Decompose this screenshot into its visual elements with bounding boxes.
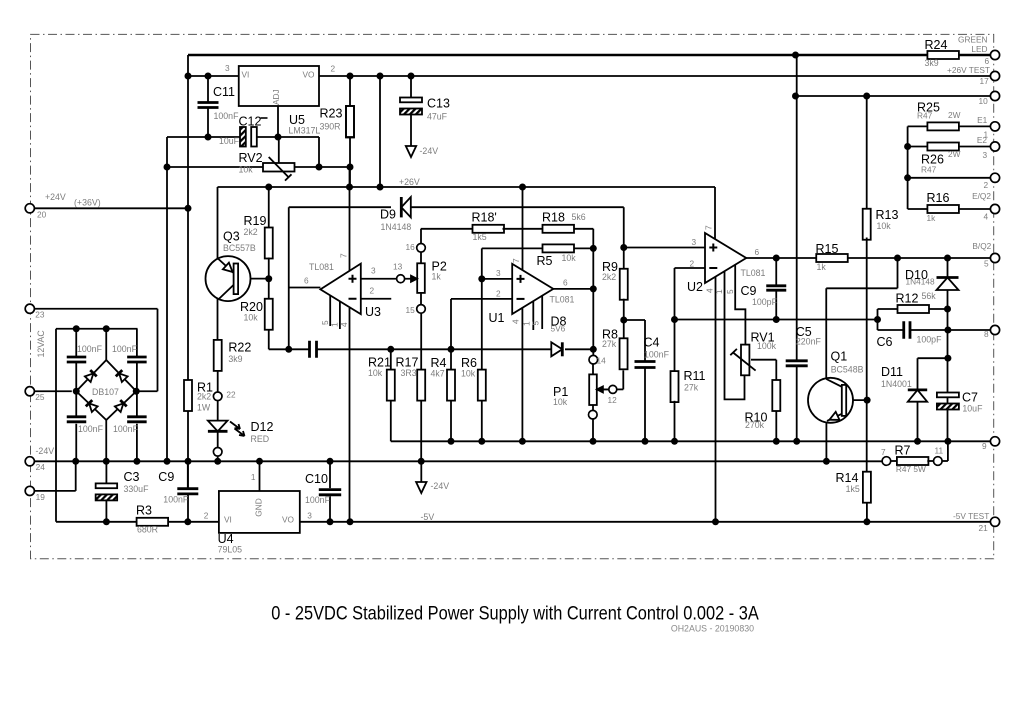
svg-text:+26V: +26V [399,177,420,187]
svg-text:R16: R16 [927,191,950,205]
svg-text:7: 7 [511,258,521,263]
svg-text:LM317L: LM317L [289,126,321,136]
svg-text:5: 5 [320,320,330,325]
svg-text:1k: 1k [927,213,937,223]
svg-text:2W: 2W [948,149,961,159]
svg-text:R19: R19 [244,214,267,228]
svg-text:20: 20 [37,210,47,220]
svg-text:R4: R4 [431,356,447,370]
svg-text:10k: 10k [239,165,254,175]
svg-text:7: 7 [339,253,349,258]
svg-text:C9: C9 [158,470,174,484]
svg-text:VO: VO [282,515,295,525]
svg-text:1: 1 [251,472,256,482]
svg-text:10k: 10k [562,253,577,263]
svg-text:56k: 56k [922,291,937,301]
svg-text:3: 3 [371,266,376,276]
svg-text:6: 6 [755,247,760,257]
svg-text:C9: C9 [741,284,757,298]
svg-text:100pF: 100pF [917,335,943,345]
svg-text:R5: R5 [537,254,553,268]
svg-text:100nF: 100nF [305,495,331,505]
svg-text:11: 11 [935,446,944,456]
svg-text:6: 6 [563,278,568,288]
svg-text:9: 9 [982,441,987,451]
svg-text:100pF: 100pF [752,297,778,307]
svg-text:R6: R6 [461,356,477,370]
svg-text:E1: E1 [977,115,988,125]
svg-text:2: 2 [984,180,989,190]
svg-text:R14: R14 [836,471,859,485]
svg-text:2: 2 [496,289,501,299]
svg-text:BC557B: BC557B [223,243,256,253]
svg-text:2: 2 [204,510,209,520]
svg-text:15: 15 [406,305,416,315]
svg-text:R23: R23 [320,107,343,121]
svg-text:3: 3 [496,268,501,278]
svg-text:TL081: TL081 [309,262,334,272]
svg-text:R13: R13 [876,208,899,222]
svg-text:R18': R18' [472,211,497,225]
svg-text:16: 16 [406,242,416,252]
svg-text:R7: R7 [895,444,911,458]
svg-text:3: 3 [692,237,697,247]
svg-text:U1: U1 [489,311,505,325]
svg-text:23: 23 [35,310,45,320]
svg-text:390R: 390R [320,122,341,132]
svg-text:R47: R47 [917,111,933,121]
svg-text:ADJ: ADJ [271,89,281,105]
svg-text:13: 13 [393,262,403,272]
svg-text:R22: R22 [228,341,251,355]
svg-text:5V6: 5V6 [551,324,566,334]
svg-text:3k9: 3k9 [925,58,939,68]
svg-text:DB107: DB107 [92,387,119,397]
svg-text:4: 4 [705,288,715,293]
svg-text:12VAC: 12VAC [36,330,46,358]
svg-text:2W: 2W [948,110,961,120]
svg-text:0 - 25VDC Stabilized Power Sup: 0 - 25VDC Stabilized Power Supply with C… [271,603,759,625]
svg-text:E/Q2: E/Q2 [972,191,991,201]
svg-text:E2: E2 [977,135,988,145]
svg-text:TL081: TL081 [550,295,575,305]
svg-text:C3: C3 [124,470,140,484]
svg-text:220nF: 220nF [796,337,822,347]
svg-text:R24: R24 [925,38,948,52]
svg-text:7: 7 [881,447,886,457]
svg-text:1W: 1W [197,403,211,413]
svg-text:VI: VI [242,70,250,80]
svg-text:680R: 680R [137,525,158,535]
svg-text:330uF: 330uF [124,484,150,494]
svg-text:25: 25 [35,392,45,402]
svg-text:R47: R47 [921,165,937,175]
svg-text:5: 5 [531,321,541,326]
svg-text:D12: D12 [251,420,274,434]
svg-text:4: 4 [984,212,989,222]
svg-text:GREEN: GREEN [958,34,988,44]
svg-text:100k: 100k [757,341,777,351]
svg-text:Q1: Q1 [831,350,848,364]
svg-text:79L05: 79L05 [218,545,243,555]
svg-text:4: 4 [511,319,521,324]
svg-text:2k2: 2k2 [602,272,616,282]
svg-text:C10: C10 [305,472,328,486]
svg-text:3k9: 3k9 [228,354,242,364]
svg-text:1N4001: 1N4001 [881,379,912,389]
svg-text:1k5: 1k5 [473,232,487,242]
svg-text:2: 2 [690,258,695,268]
svg-text:100nF: 100nF [78,424,104,434]
svg-text:5: 5 [984,259,989,269]
svg-text:2k2: 2k2 [197,392,211,402]
svg-text:R3: R3 [136,504,152,518]
svg-text:-24V: -24V [36,446,55,456]
svg-text:270k: 270k [745,420,765,430]
svg-text:6: 6 [304,276,309,286]
svg-text:1N4148: 1N4148 [381,222,412,232]
svg-text:24: 24 [36,462,46,472]
svg-text:14: 14 [597,355,607,365]
svg-text:C4: C4 [644,336,660,350]
svg-text:VI: VI [224,515,232,525]
svg-text:100nF: 100nF [77,344,103,354]
svg-text:2: 2 [331,64,336,74]
svg-text:-24V: -24V [420,146,439,156]
svg-text:10k: 10k [553,397,568,407]
svg-text:8: 8 [984,329,989,339]
svg-text:R47 5W: R47 5W [896,464,926,474]
svg-text:(+36V): (+36V) [74,198,101,208]
svg-text:27k: 27k [602,339,617,349]
svg-text:RED: RED [251,434,270,444]
svg-text:RV2: RV2 [239,151,263,165]
svg-text:3R3: 3R3 [401,368,417,378]
svg-text:1k: 1k [817,262,827,272]
svg-text:C12: C12 [239,115,262,129]
svg-text:5k6: 5k6 [572,212,586,222]
svg-text:R11: R11 [684,369,706,383]
svg-text:100nF: 100nF [214,111,240,121]
svg-text:+24V: +24V [45,192,66,202]
svg-text:3: 3 [225,63,230,73]
svg-text:OH2AUS - 20190830: OH2AUS - 20190830 [671,624,754,634]
svg-text:D11: D11 [881,365,903,379]
svg-text:C11: C11 [213,85,235,99]
svg-text:10k: 10k [877,221,892,231]
svg-text:27k: 27k [684,383,699,393]
svg-text:C6: C6 [877,335,893,349]
svg-text:C13: C13 [427,97,450,111]
svg-text:10k: 10k [368,368,383,378]
svg-text:100nF: 100nF [644,350,670,360]
svg-text:R18: R18 [542,211,565,225]
svg-text:10k: 10k [461,369,476,379]
svg-text:2k2: 2k2 [244,227,258,237]
svg-text:4: 4 [339,322,349,327]
svg-text:B/Q2: B/Q2 [972,241,991,251]
svg-text:GND: GND [254,498,264,516]
svg-text:R12: R12 [896,292,919,306]
svg-text:100nF: 100nF [112,344,138,354]
svg-text:-24V: -24V [431,481,450,491]
svg-text:TL081: TL081 [741,268,766,278]
svg-text:10: 10 [979,96,989,106]
svg-text:100nF: 100nF [163,495,189,505]
svg-text:5: 5 [725,289,735,294]
svg-text:3: 3 [983,150,988,160]
svg-text:1k5: 1k5 [846,484,860,494]
svg-text:2: 2 [370,286,375,296]
svg-text:1k: 1k [432,272,442,282]
svg-text:LED: LED [971,44,987,54]
svg-text:U3: U3 [365,305,381,319]
svg-text:BC548B: BC548B [831,365,864,375]
svg-text:100nF: 100nF [113,424,139,434]
svg-text:-5V: -5V [421,512,435,522]
svg-text:1: 1 [330,322,340,327]
svg-text:21: 21 [979,523,989,533]
svg-text:19: 19 [36,492,46,502]
svg-text:47uF: 47uF [427,112,448,122]
svg-text:D9: D9 [380,208,396,222]
svg-text:10uF: 10uF [219,136,240,146]
svg-text:22: 22 [226,390,236,400]
svg-text:U2: U2 [687,280,703,294]
svg-text:R15: R15 [816,242,839,256]
svg-text:1: 1 [714,289,724,294]
svg-text:Q3: Q3 [223,230,240,244]
svg-text:VO: VO [303,70,316,80]
svg-text:3: 3 [307,510,312,520]
svg-text:-5V TEST: -5V TEST [953,511,989,521]
svg-text:7: 7 [704,225,714,230]
svg-text:17: 17 [980,76,990,86]
svg-text:C7: C7 [962,391,978,405]
svg-text:+26V TEST: +26V TEST [947,65,990,75]
svg-text:10k: 10k [244,313,259,323]
svg-text:1N4148: 1N4148 [906,277,935,287]
svg-text:10uF: 10uF [962,404,983,414]
svg-text:12: 12 [608,395,618,405]
svg-text:4k7: 4k7 [431,369,445,379]
